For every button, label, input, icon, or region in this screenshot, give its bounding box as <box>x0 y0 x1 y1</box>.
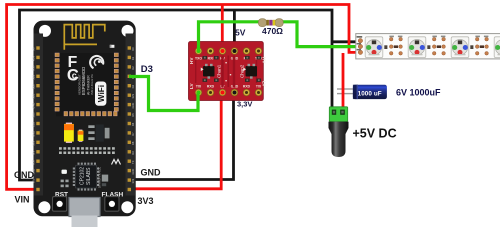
wire: black branch down to level shifter GND (top) <box>233 10 236 51</box>
svg-text:CP2102: CP2102 <box>80 167 86 185</box>
wire: red NodeMCU 3V3 right -> level shifter LV pad <box>128 93 221 189</box>
left pin strip <box>34 34 44 196</box>
svg-text:DTR-RX-TX-VCC: DTR-RX-TX-VCC <box>98 167 102 188</box>
svg-text:3V3: 3V3 <box>131 178 135 183</box>
smd resistors <box>203 56 262 82</box>
svg-text:GND: GND <box>32 131 36 137</box>
wire: black NodeMCU GND right -> level shifter GND (bottom) <box>128 93 234 180</box>
strip solder pads P2 <box>432 36 445 56</box>
FLASH button <box>105 197 119 212</box>
antenna trace <box>64 25 105 50</box>
zigzag arrow mark <box>112 160 121 165</box>
regulator Q3 <box>88 125 94 128</box>
strip input pads <box>358 39 362 43</box>
svg-text:RSV: RSV <box>32 65 36 71</box>
WiFi badge <box>95 82 106 106</box>
svg-text:3V3: 3V3 <box>32 140 36 145</box>
svg-text:HV: HV <box>262 57 267 64</box>
wifi spiral logo <box>90 56 103 68</box>
TX LED (white) <box>62 170 67 174</box>
svg-text:RX: RX <box>131 151 135 155</box>
svg-text:SILABS: SILABS <box>86 167 92 185</box>
wire end dots on level shifter pads <box>197 49 201 53</box>
silkscreen labels <box>195 56 262 88</box>
pad rows <box>59 147 115 154</box>
svg-text:D1: D1 <box>131 56 135 60</box>
wire: red +5V bus (VIN -> left edge -> top -> down right -> LED strip 5V pad) <box>7 5 360 190</box>
pads top row <box>195 48 262 55</box>
svg-text:RXD: RXD <box>207 85 215 89</box>
svg-text:ESP8266MOD: ESP8266MOD <box>81 67 86 95</box>
svg-text:GND: GND <box>131 103 135 109</box>
svg-text:SD1: SD1 <box>32 93 36 99</box>
svg-text:D4: D4 <box>131 84 135 88</box>
svg-text:D5: D5 <box>131 113 135 117</box>
mounting hole bottom-left <box>38 201 50 213</box>
LED strip LS1 <box>356 34 500 59</box>
capacitor C1 leads <box>337 88 356 89</box>
svg-text:HV: HV <box>189 57 194 64</box>
module right pads <box>114 53 118 111</box>
band yellow <box>267 20 269 26</box>
svg-text:SD3: SD3 <box>32 74 36 80</box>
svg-text:+5V DC: +5V DC <box>353 127 397 141</box>
RST button <box>53 197 67 212</box>
svg-text:6V 1000uF: 6V 1000uF <box>396 88 441 98</box>
NodeMCU board U1 <box>34 21 136 217</box>
small parts right of chip <box>102 175 108 182</box>
svg-text:3V3: 3V3 <box>131 93 135 98</box>
svg-text:RSV: RSV <box>32 55 36 61</box>
svg-text:A0: A0 <box>32 47 36 51</box>
svg-text:CLK: CLK <box>32 122 36 127</box>
LED module L4 <box>494 37 500 58</box>
ESP module shield <box>56 53 121 116</box>
svg-text:RXD: RXD <box>243 85 251 89</box>
svg-text:TXI: TXI <box>256 85 261 89</box>
mounting hole bottom-right <box>121 201 133 213</box>
LED D1 (large yellow/orange) <box>66 123 72 125</box>
small caps left <box>61 180 64 183</box>
USB connector <box>69 198 100 217</box>
level shifter board U2 <box>189 42 264 101</box>
side labels <box>189 57 267 89</box>
wire: red DC jack feed <box>342 53 345 109</box>
svg-text:RXI: RXI <box>208 56 214 60</box>
left pin pads <box>36 46 39 191</box>
LED D2 (small yellow/orange) <box>79 130 83 132</box>
svg-text:EN: EN <box>32 151 36 155</box>
pads bottom row <box>195 89 262 96</box>
DC jack screw terminal <box>329 107 347 122</box>
svg-text:VIN: VIN <box>15 195 30 205</box>
band violet <box>269 20 272 26</box>
pcb traces <box>195 56 257 88</box>
svg-text:TX: TX <box>131 160 135 164</box>
svg-text:c: c <box>72 71 77 81</box>
svg-text:SD2: SD2 <box>32 84 36 90</box>
svg-text:WiFi: WiFi <box>97 85 106 102</box>
svg-text:D2: D2 <box>131 66 135 70</box>
svg-text:3V3: 3V3 <box>138 196 154 206</box>
svg-text:Chan1: Chan1 <box>217 64 222 78</box>
transistor Q1 <box>203 64 215 79</box>
wire: green data TXO -> resistor -> LED strip DIN <box>199 22 361 51</box>
LED module L2 <box>408 37 430 58</box>
module bottom pads <box>64 112 117 116</box>
svg-text:LV: LV <box>189 83 194 89</box>
wire: red branch down to level shifter HV pad <box>221 5 224 52</box>
svg-text:TXI: TXI <box>196 85 201 89</box>
svg-text:ISM 2.4GHz PA: ISM 2.4GHz PA <box>90 74 94 95</box>
power LED <box>110 45 115 48</box>
strip solder pads P1 <box>389 36 402 56</box>
mounting hole top-right <box>122 25 134 37</box>
LED module L1 <box>365 37 387 58</box>
svg-text:TXO: TXO <box>195 56 202 60</box>
transistor Q2 <box>246 64 258 79</box>
right pin pads <box>128 46 131 191</box>
svg-text:GND: GND <box>141 168 162 178</box>
svg-text:5V: 5V <box>235 27 246 37</box>
svg-text:CMD: CMD <box>32 103 36 109</box>
wire: black branch to LED strip GND pad <box>332 40 360 43</box>
svg-text:1000 uF: 1000 uF <box>358 90 382 97</box>
DC jack barrel body <box>329 122 349 157</box>
svg-text:3,3V: 3,3V <box>237 100 252 109</box>
pin labels <box>32 47 135 184</box>
wire: black GND bus (NodeMCU GND left -> left edge -> top -> down to DC jack) <box>20 10 333 180</box>
wire: green data D3 -> level shifter TXI <box>129 77 198 111</box>
silk marks <box>201 68 204 72</box>
svg-text:LV: LV <box>262 81 267 87</box>
resistor R1 <box>264 20 278 26</box>
right pin strip <box>126 34 136 196</box>
module left pads <box>55 53 59 111</box>
svg-text:D3: D3 <box>141 64 153 75</box>
capacitor C1 body <box>353 85 387 99</box>
svg-text:GND: GND <box>14 170 35 180</box>
CP2102 chip <box>76 165 97 188</box>
svg-text:SD0: SD0 <box>32 112 36 118</box>
chip pad fringe <box>73 163 99 191</box>
svg-text:GND: GND <box>131 169 135 175</box>
strip solder pads P3 <box>475 36 488 56</box>
mounting hole top-left <box>39 25 51 37</box>
svg-text:D6: D6 <box>131 122 135 126</box>
svg-text:D7: D7 <box>131 132 135 136</box>
svg-text:Chan2: Chan2 <box>240 64 245 78</box>
svg-text:D8: D8 <box>131 141 135 145</box>
svg-text:470Ω: 470Ω <box>262 26 283 36</box>
input pad labels <box>357 36 363 50</box>
band gold <box>273 20 275 26</box>
svg-text:D0: D0 <box>131 47 135 51</box>
svg-text:RST: RST <box>32 159 36 165</box>
LED module L3 <box>451 37 473 58</box>
